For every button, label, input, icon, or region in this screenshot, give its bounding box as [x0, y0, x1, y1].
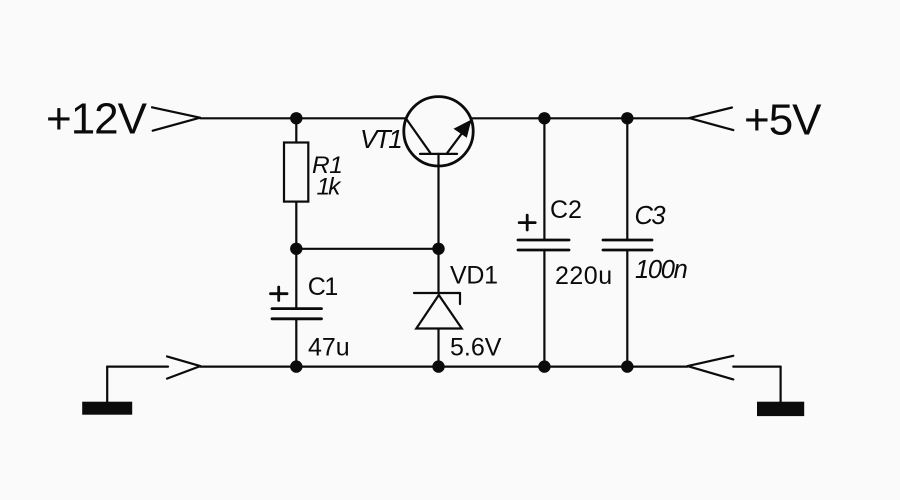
svg-text:C2: C2: [550, 196, 582, 224]
svg-text:C3: C3: [635, 202, 666, 230]
svg-text:C1: C1: [308, 273, 338, 301]
svg-text:47u: 47u: [308, 334, 350, 362]
svg-text:5.6V: 5.6V: [450, 334, 502, 362]
svg-text:VT1: VT1: [360, 124, 401, 154]
svg-text:220u: 220u: [555, 262, 613, 290]
svg-text:100n: 100n: [635, 256, 688, 284]
svg-text:VD1: VD1: [450, 262, 498, 290]
svg-text:1k: 1k: [317, 174, 343, 201]
svg-text:+12V: +12V: [46, 94, 148, 143]
svg-text:+5V: +5V: [744, 96, 822, 145]
